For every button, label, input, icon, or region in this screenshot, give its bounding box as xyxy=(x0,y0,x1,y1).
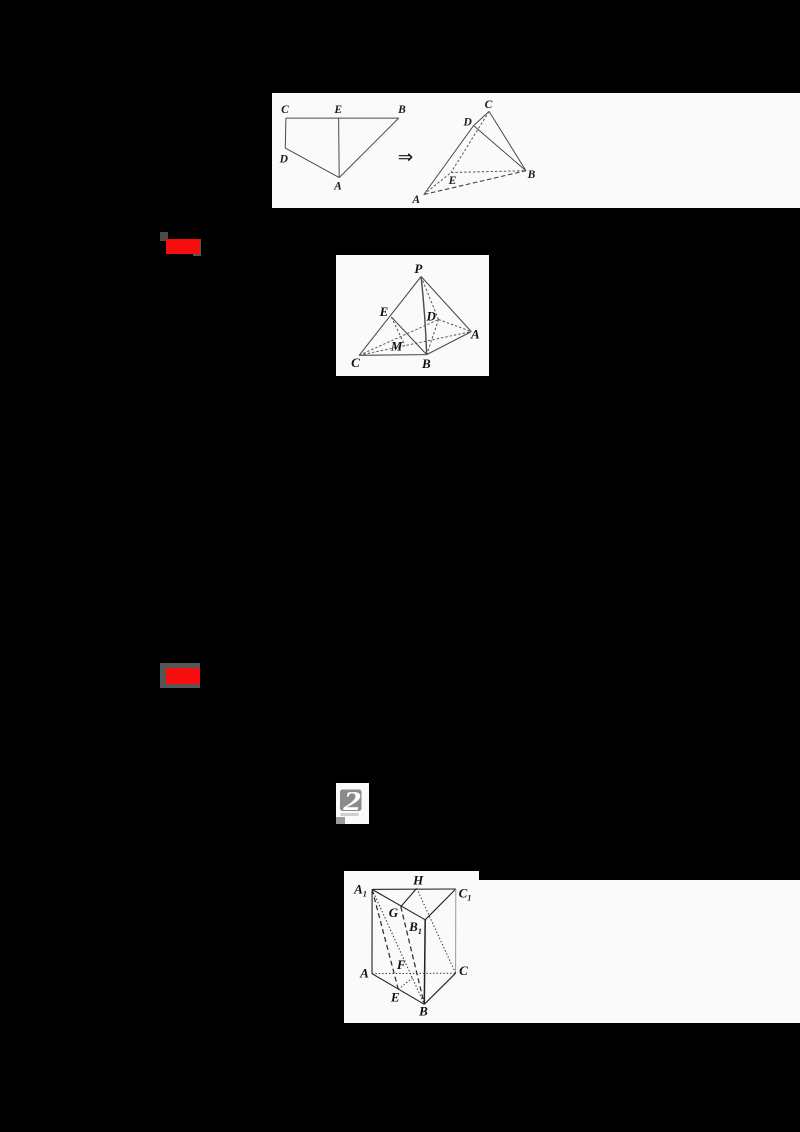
svg-text:C: C xyxy=(485,99,493,111)
svg-text:C: C xyxy=(281,104,289,116)
svg-text:H: H xyxy=(412,873,424,888)
svg-text:⇒: ⇒ xyxy=(398,148,414,168)
svg-text:A1: A1 xyxy=(353,882,367,899)
svg-text:P: P xyxy=(414,261,423,276)
svg-text:B: B xyxy=(418,1004,428,1019)
svg-text:G: G xyxy=(389,905,399,920)
svg-text:B1: B1 xyxy=(408,919,422,936)
svg-text:C1: C1 xyxy=(459,886,472,903)
svg-text:C: C xyxy=(351,355,360,370)
svg-text:A: A xyxy=(470,327,480,342)
svg-text:B: B xyxy=(421,356,431,371)
svg-text:M: M xyxy=(390,339,403,354)
svg-text:B: B xyxy=(527,169,536,181)
svg-text:E: E xyxy=(333,104,342,116)
svg-text:D: D xyxy=(279,154,289,166)
svg-text:A: A xyxy=(333,181,342,193)
svg-text:E: E xyxy=(379,304,389,319)
svg-text:B: B xyxy=(397,104,406,116)
svg-text:A: A xyxy=(359,966,369,981)
svg-text:C: C xyxy=(459,963,468,978)
svg-text:D: D xyxy=(426,309,437,324)
svg-text:2: 2 xyxy=(342,786,361,816)
svg-text:E: E xyxy=(448,175,457,187)
svg-text:E: E xyxy=(390,990,400,1005)
svg-text:A: A xyxy=(411,194,420,206)
svg-text:F: F xyxy=(396,957,406,972)
svg-text:D: D xyxy=(463,117,473,129)
